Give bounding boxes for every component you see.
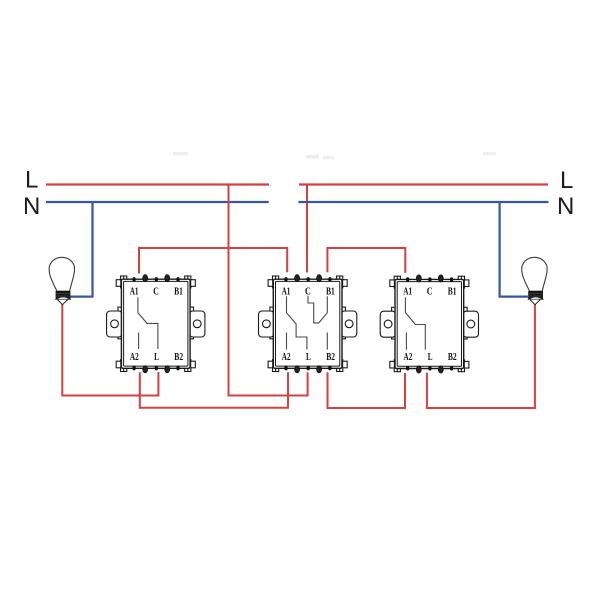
wire N to lamp DS2: [500, 202, 528, 297]
wire L bus left segment: [46, 183, 269, 185]
wire N to lamp DS1: [70, 202, 93, 297]
wire lamp DS1 to SW1 L terminal: [62, 304, 158, 396]
switch SW3 body: [380, 275, 478, 373]
switch SW1 body: [107, 275, 205, 373]
SW3 mechanism A2 stub: [405, 333, 407, 350]
watermark remnant dash 2: [306, 155, 319, 159]
watermark remnant dash 1: [173, 152, 188, 156]
switch SW2 body: [259, 275, 357, 373]
wire SW1 A1 to SW2 A1: [139, 248, 287, 274]
svg-text:N: N: [23, 193, 40, 220]
svg-text:N: N: [557, 193, 574, 220]
wire SW3 L to lamp DS2: [427, 304, 535, 409]
lamp DS2: [522, 257, 547, 304]
wire L feed to SW2 L terminal: [229, 185, 308, 396]
SW2 mechanism B2 stub: [326, 333, 328, 350]
SW2 mechanism pole A1-L: [287, 296, 307, 349]
svg-text:L: L: [560, 167, 573, 194]
wire N bus right segment: [298, 201, 548, 203]
watermark remnant dash 3: [323, 156, 334, 160]
wire L bus right segment: [299, 183, 548, 185]
wire SW1 A2 to SW2 A2: [140, 372, 288, 408]
wire N bus left segment: [46, 201, 269, 203]
SW2 mechanism pole C-B1: [308, 296, 327, 323]
SW3 mechanism pole A1-L: [405, 297, 425, 349]
lamp DS1: [49, 257, 74, 304]
SW1 mechanism A2 stub: [138, 333, 140, 350]
wire SW2 B2 to SW3 A2: [328, 372, 406, 408]
SW2 mechanism A2 stub: [286, 333, 288, 350]
wire L feed to SW2 C terminal: [306, 185, 308, 273]
watermark remnant dash 4: [483, 152, 496, 156]
wire SW2 B1 to SW3 A1: [327, 248, 405, 273]
svg-text:L: L: [25, 167, 38, 194]
SW1 mechanism pole A1-L: [138, 297, 158, 349]
